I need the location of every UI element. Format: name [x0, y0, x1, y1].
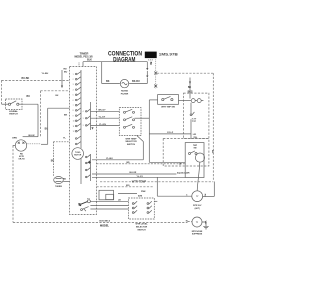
svg-text:BU: BU [64, 71, 68, 73]
svg-text:4: 4 [83, 111, 84, 113]
svg-text:AQUA-GUAR: AQUA-GUAR [177, 171, 190, 174]
svg-text:THERM: THERM [55, 186, 62, 188]
svg-text:BK: BK [188, 87, 192, 89]
svg-text:MODEL: MODEL [100, 225, 110, 228]
svg-text:2: 2 [73, 79, 74, 81]
svg-text:4: 4 [73, 89, 74, 91]
svg-text:RD: RD [64, 68, 68, 70]
svg-text:BK: BK [64, 114, 68, 116]
svg-text:6: 6 [73, 100, 74, 102]
svg-text:WTR TMP SW: WTR TMP SW [161, 107, 175, 109]
svg-text:CONNECTION: CONNECTION [108, 51, 142, 57]
svg-text:BU-OR: BU-OR [130, 172, 137, 174]
svg-text:BD: BD [127, 162, 131, 164]
svg-text:TYP: TYP [192, 121, 197, 123]
svg-text:BU-W: BU-W [29, 135, 36, 137]
svg-text:10: 10 [73, 121, 75, 123]
svg-text:AVB: AVB [138, 195, 143, 198]
svg-text:ORN: ORN [12, 138, 17, 140]
svg-text:NOISE: NOISE [121, 91, 128, 93]
svg-text:1MS.97B: 1MS.97B [159, 52, 179, 56]
svg-text:Y-TY: Y-TY [192, 118, 197, 120]
svg-text:YL-BU: YL-BU [106, 158, 113, 160]
svg-text:YL-GY: YL-GY [137, 176, 144, 178]
svg-text:BU: BU [51, 160, 55, 162]
svg-text:LID/BAL: LID/BAL [9, 110, 18, 113]
svg-text:7: 7 [73, 105, 74, 107]
svg-text:GY-LF: GY-LF [167, 132, 174, 134]
svg-text:11: 11 [73, 126, 75, 128]
svg-text:TIMER: TIMER [80, 52, 89, 56]
svg-text:WTR LEVEL: WTR LEVEL [135, 224, 148, 226]
svg-text:BU: BU [45, 128, 49, 130]
svg-text:BKG: BKG [188, 92, 193, 94]
svg-text:BK-BU: BK-BU [132, 80, 140, 83]
svg-text:YL-GN: YL-GN [99, 124, 106, 126]
svg-text:SWITCH: SWITCH [9, 114, 18, 116]
svg-text:RD: RD [63, 178, 67, 180]
svg-text:BK-GY: BK-GY [99, 110, 107, 112]
svg-text:3: 3 [73, 84, 74, 86]
svg-text:(HOT): (HOT) [195, 208, 201, 210]
svg-text:12: 12 [73, 131, 75, 133]
svg-text:SWITCH: SWITCH [127, 144, 136, 146]
svg-text:1: 1 [73, 74, 74, 76]
svg-text:BU: BU [211, 150, 213, 154]
svg-text:BK: BK [106, 80, 110, 83]
svg-text:FILTER: FILTER [121, 93, 129, 95]
svg-text:YL-GY: YL-GY [99, 117, 106, 119]
svg-text:LID: LID [193, 134, 197, 136]
svg-text:YL-BU: YL-BU [42, 73, 49, 75]
svg-text:BU-BK: BU-BK [22, 77, 30, 80]
svg-text:16010 BK A: 16010 BK A [99, 220, 110, 223]
svg-text:1: 1 [83, 118, 84, 120]
svg-text:WTR TEMP: WTR TEMP [125, 139, 137, 141]
svg-text:BU: BU [27, 95, 31, 98]
svg-text:BLK: BLK [87, 58, 92, 61]
svg-text:SUPPRESS: SUPPRESS [192, 234, 203, 236]
svg-text:9: 9 [73, 115, 74, 117]
svg-text:MO: MO [126, 185, 130, 187]
svg-text:PNK: PNK [141, 191, 146, 193]
svg-text:DIAGRAM: DIAGRAM [113, 58, 135, 64]
svg-text:BK: BK [149, 62, 151, 66]
svg-text:SW: SW [193, 147, 196, 149]
svg-text:SELECTOR: SELECTOR [125, 141, 137, 143]
svg-text:8: 8 [73, 110, 74, 112]
svg-text:SELECTOR: SELECTOR [136, 227, 148, 229]
svg-text:SWITCH: SWITCH [137, 229, 146, 231]
svg-text:MTR NOISE: MTR NOISE [192, 231, 203, 233]
svg-text:5: 5 [73, 95, 74, 97]
svg-text:OR-TD: OR-TD [18, 159, 25, 161]
svg-text:WTR-TEMP: WTR-TEMP [132, 180, 147, 184]
svg-text:MOTOR: MOTOR [74, 155, 82, 157]
svg-text:3: 3 [83, 125, 84, 127]
